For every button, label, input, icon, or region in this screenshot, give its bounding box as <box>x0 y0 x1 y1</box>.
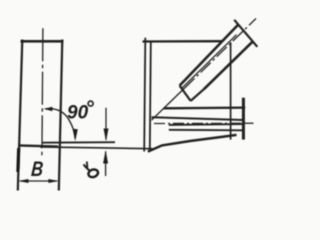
svg-text:90: 90 <box>67 103 89 124</box>
svg-text:В: В <box>30 157 44 180</box>
